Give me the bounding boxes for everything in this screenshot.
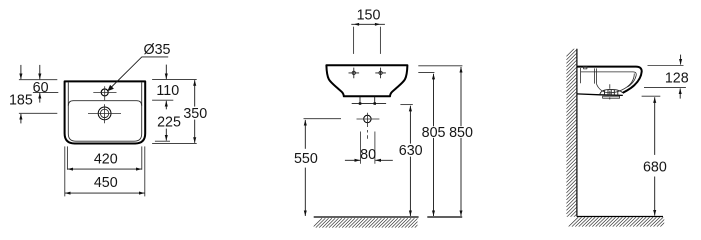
extension line faucet level left	[33, 91, 58, 93]
extension line fixing level	[400, 104, 412, 106]
svg-text:110: 110	[156, 83, 179, 99]
dim 128 top arrow	[680, 55, 682, 65]
fixing tab left line	[359, 97, 361, 104]
svg-text:450: 450	[94, 175, 118, 191]
extension line drain level front	[304, 118, 342, 120]
dim 550 line lower	[304, 168, 306, 216]
svg-text:805: 805	[422, 125, 446, 141]
svg-text:850: 850	[449, 125, 473, 141]
dim 185 top arrow	[20, 65, 22, 79]
faucet hole crosshair	[93, 86, 116, 100]
extension line bowl bottom right	[155, 140, 170, 142]
dim 150 extension line left	[353, 27, 355, 54]
dim 450 line	[65, 192, 145, 194]
basin side-view inner rim line	[581, 72, 637, 87]
dim 80 left arrow	[345, 159, 360, 161]
svg-text:Ø35: Ø35	[143, 42, 170, 58]
extension line rim level right	[418, 65, 462, 67]
dim 805 line upper	[433, 74, 435, 127]
floor line right segment	[427, 216, 462, 218]
leader arrowhead	[107, 85, 114, 91]
left fixing bolt	[359, 102, 362, 105]
dim 850 line lower	[460, 138, 462, 216]
basin front-view outline	[326, 65, 407, 96]
drain trap dome	[600, 89, 623, 94]
extension line tap level right	[418, 72, 434, 74]
dim 630 line lower	[409, 157, 411, 216]
dim 60 top arrow	[39, 65, 41, 79]
extension line bottom outer left	[64, 146, 66, 196]
extension line outer bottom right	[152, 142, 197, 144]
drain outlet circle front view	[364, 115, 371, 122]
svg-text:350: 350	[183, 106, 207, 122]
dim 60 bottom arrow	[39, 93, 41, 103]
dim 680 line lower	[654, 177, 656, 216]
svg-text:128: 128	[665, 71, 689, 87]
svg-text:630: 630	[399, 143, 423, 159]
fixing tab right line	[374, 97, 376, 104]
left tap hole cross	[349, 68, 360, 79]
dim 350 line upper	[194, 80, 196, 107]
dim 80 extension line left	[360, 132, 362, 164]
drain centerline side view	[609, 84, 611, 99]
extension line bottom inner right	[141, 146, 143, 169]
dim 225 bottom arrow	[165, 129, 167, 141]
dim 150 extension line right	[379, 27, 381, 54]
floor line main	[314, 216, 419, 218]
svg-text:150: 150	[357, 8, 381, 24]
wall line side view	[576, 49, 578, 217]
drain hole outer circle	[98, 107, 111, 120]
dim 680 line upper	[654, 97, 656, 155]
svg-text:225: 225	[157, 115, 181, 131]
svg-text:550: 550	[294, 151, 318, 167]
drain trap nut flange	[603, 96, 620, 98]
floor hatching side view	[569, 217, 671, 226]
svg-text:60: 60	[33, 80, 49, 96]
drain outlet crosshair front view	[357, 113, 380, 139]
dim 350 line lower	[194, 120, 196, 143]
left tap hole circle	[352, 71, 355, 74]
drain hole crosshair	[88, 104, 121, 123]
dim 110 top arrow	[165, 65, 167, 80]
floor line side view	[577, 216, 663, 218]
extension line basin bottom side view	[642, 95, 661, 97]
basin side-view underside	[577, 94, 623, 96]
right fixing bolt	[374, 102, 377, 105]
dim 128 extension line bottom	[644, 86, 686, 88]
wall hatching	[566, 46, 576, 228]
drain trap facets	[605, 90, 618, 96]
dim 550 line upper	[304, 120, 306, 149]
dim 185 bottom arrow	[20, 114, 22, 124]
extension line top edge right	[152, 79, 197, 81]
extension line bowl back edge right	[152, 99, 173, 101]
dim 150 left arrowhead	[354, 23, 360, 26]
dim 80 right arrow	[375, 159, 393, 161]
basin top-view outer outline	[65, 81, 146, 143]
fixing line horizontal	[352, 103, 386, 105]
dim 805 line lower	[433, 138, 435, 216]
dim 128 extension line top	[648, 65, 684, 67]
right tap hole circle	[379, 71, 382, 74]
basin top-view bowl back edge	[68, 101, 141, 106]
basin side-view outline	[577, 67, 642, 93]
bowl section curve	[596, 74, 634, 93]
dim 150 right arrowhead	[375, 23, 381, 26]
svg-text:680: 680	[643, 159, 667, 175]
faucet hole circle	[101, 89, 108, 96]
svg-text:80: 80	[360, 147, 376, 163]
dim 850 line upper	[460, 67, 462, 126]
dim 80 extension line right	[374, 132, 376, 164]
extension line drain level left	[19, 112, 57, 114]
basin top-view inner bowl outline	[68, 83, 141, 142]
overflow slot	[584, 66, 587, 69]
dim 110 bottom arrow	[165, 101, 167, 110]
svg-text:185: 185	[9, 93, 33, 109]
drain hole inner circle	[100, 109, 108, 117]
dim 150 line	[351, 23, 385, 25]
faucet hole section lines	[595, 68, 597, 83]
right tap hole cross	[375, 68, 386, 79]
extension line bottom inner left	[66, 146, 68, 169]
dim 420 line	[68, 168, 142, 170]
svg-text:420: 420	[94, 152, 118, 168]
extension line top edge left	[19, 79, 57, 81]
backsplash edge line	[580, 68, 582, 83]
floor hatching middle	[313, 218, 425, 227]
leader line for Ø35	[111, 57, 169, 88]
extension line bottom outer right	[144, 146, 146, 196]
dim 630 line upper	[409, 106, 411, 144]
dim 128 bottom arrow	[679, 88, 681, 98]
